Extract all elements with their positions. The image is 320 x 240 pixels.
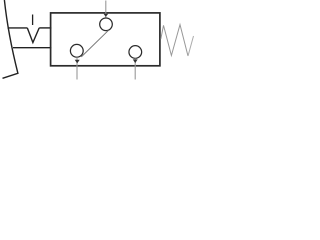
- terminal wire: bottom right: [134, 58, 136, 79]
- contact circle: bottom right: [129, 46, 142, 59]
- movable contact blade: [81, 30, 108, 57]
- roller follower V notch: [27, 28, 39, 43]
- wire: upper link from lever: [8, 27, 28, 29]
- wire: upper link into switch body: [39, 27, 51, 29]
- actuating lever arm: [3, 0, 18, 78]
- contact circle: bottom left: [70, 44, 83, 57]
- arrow: bottom right terminal: [133, 59, 138, 63]
- contact circle: top: [100, 18, 113, 31]
- arrow: top terminal: [104, 14, 109, 17]
- return spring last coil (fading): [188, 36, 194, 56]
- plunger pin tick: [32, 15, 34, 26]
- switch body box: [51, 13, 160, 66]
- terminal wire: top common: [105, 1, 107, 19]
- wire: lower link from lever into switch body: [13, 47, 52, 49]
- terminal wire: bottom left: [76, 57, 78, 79]
- arrow: bottom left terminal: [75, 60, 80, 64]
- return spring: [161, 25, 188, 56]
